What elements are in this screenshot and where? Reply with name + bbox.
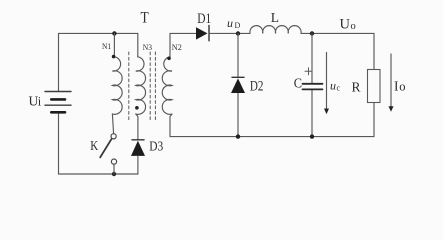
wire D2 branch	[237, 33, 239, 136]
inductor L	[250, 26, 301, 34]
wire D3 bottom	[137, 156, 139, 174]
svg-text:C: C	[294, 77, 302, 92]
svg-text:K: K	[90, 138, 98, 153]
arrow Io	[389, 54, 394, 112]
phase dot N1	[112, 55, 116, 59]
svg-text:R: R	[352, 79, 361, 94]
svg-text:D1: D1	[197, 11, 211, 27]
svg-text:u: u	[227, 16, 233, 30]
svg-text:N3: N3	[143, 42, 152, 52]
switch K lever	[100, 139, 111, 157]
wire L to corner R	[301, 32, 374, 34]
winding N3	[136, 57, 146, 115]
winding N1	[112, 57, 122, 115]
capacitor C plates	[303, 84, 323, 90]
svg-text:D3: D3	[149, 140, 163, 155]
wire N1 top	[113, 33, 115, 57]
wire top rail left	[59, 33, 138, 91]
wire N3 top	[137, 33, 139, 57]
phase dot N2	[167, 57, 171, 61]
svg-text:D2: D2	[250, 79, 264, 95]
plus sign of C	[305, 68, 312, 75]
svg-text:o: o	[351, 21, 356, 32]
svg-text:U: U	[340, 17, 351, 33]
node C bottom junction	[310, 134, 314, 138]
svg-text:u: u	[330, 79, 336, 93]
wire N3 bottom to D3	[136, 114, 138, 140]
node junction N1 top	[112, 31, 116, 35]
diode D3	[131, 140, 145, 156]
node C top junction	[310, 31, 314, 35]
svg-text:L: L	[271, 10, 279, 25]
resistor R box	[368, 70, 381, 103]
svg-text:T: T	[141, 10, 149, 27]
node u_D junction	[236, 31, 240, 35]
svg-text:N1: N1	[102, 41, 111, 51]
wire battery bottom to rail	[59, 114, 139, 174]
node junction switch bottom rail	[112, 172, 116, 176]
core dashed line 1	[128, 52, 130, 122]
phase dot N3	[135, 106, 139, 110]
core dashed line 2	[149, 52, 151, 122]
node D2 bottom junction	[236, 134, 240, 138]
switch K circles	[111, 134, 116, 139]
wire D1 to L	[209, 32, 250, 34]
svg-text:N2: N2	[172, 42, 182, 52]
wire N1 bottom to switch	[112, 114, 113, 134]
svg-text:i: i	[38, 95, 42, 109]
resistor R branch wires	[373, 33, 375, 136]
wire switch bottom	[113, 164, 115, 174]
svg-text:o: o	[399, 80, 405, 94]
svg-text:D: D	[235, 21, 241, 30]
core dashed line 3	[154, 52, 156, 122]
winding N2	[162, 57, 172, 115]
battery Ui plates	[45, 92, 71, 113]
wire C branch	[311, 33, 313, 136]
svg-text:c: c	[337, 83, 341, 92]
wire N2 bottom to rail	[170, 114, 374, 137]
arrow u_c	[324, 53, 329, 115]
diode D2	[231, 77, 245, 93]
diode D1	[196, 26, 209, 41]
wire N2 top from rail corner	[170, 33, 196, 57]
